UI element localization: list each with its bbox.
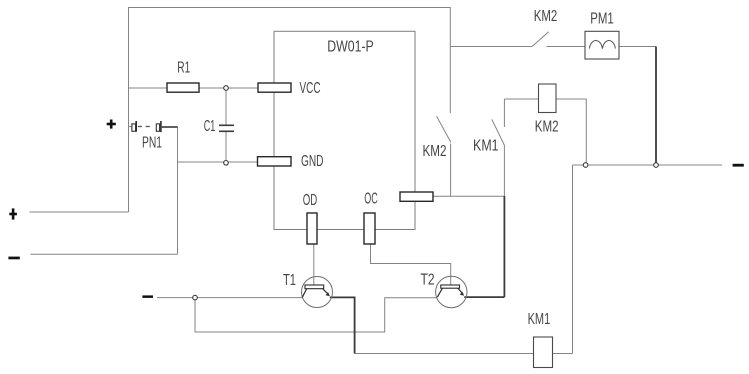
svg-text:GND: GND xyxy=(301,153,324,170)
svg-text:KM2: KM2 xyxy=(423,143,447,160)
svg-text:KM1: KM1 xyxy=(528,311,551,328)
svg-text:KM1: KM1 xyxy=(473,138,499,155)
svg-text:OD: OD xyxy=(303,192,318,209)
svg-text:KM2: KM2 xyxy=(534,8,558,25)
svg-text:T1: T1 xyxy=(283,272,296,289)
svg-text:VCC: VCC xyxy=(300,80,321,97)
svg-text:C1: C1 xyxy=(204,118,216,135)
svg-text:PN1: PN1 xyxy=(142,135,162,152)
svg-text:DW01-P: DW01-P xyxy=(327,39,374,56)
svg-text:OC: OC xyxy=(364,191,378,208)
svg-text:T2: T2 xyxy=(421,272,435,289)
svg-text:PM1: PM1 xyxy=(590,11,614,28)
svg-text:R1: R1 xyxy=(177,60,190,77)
svg-text:KM2: KM2 xyxy=(535,119,559,136)
